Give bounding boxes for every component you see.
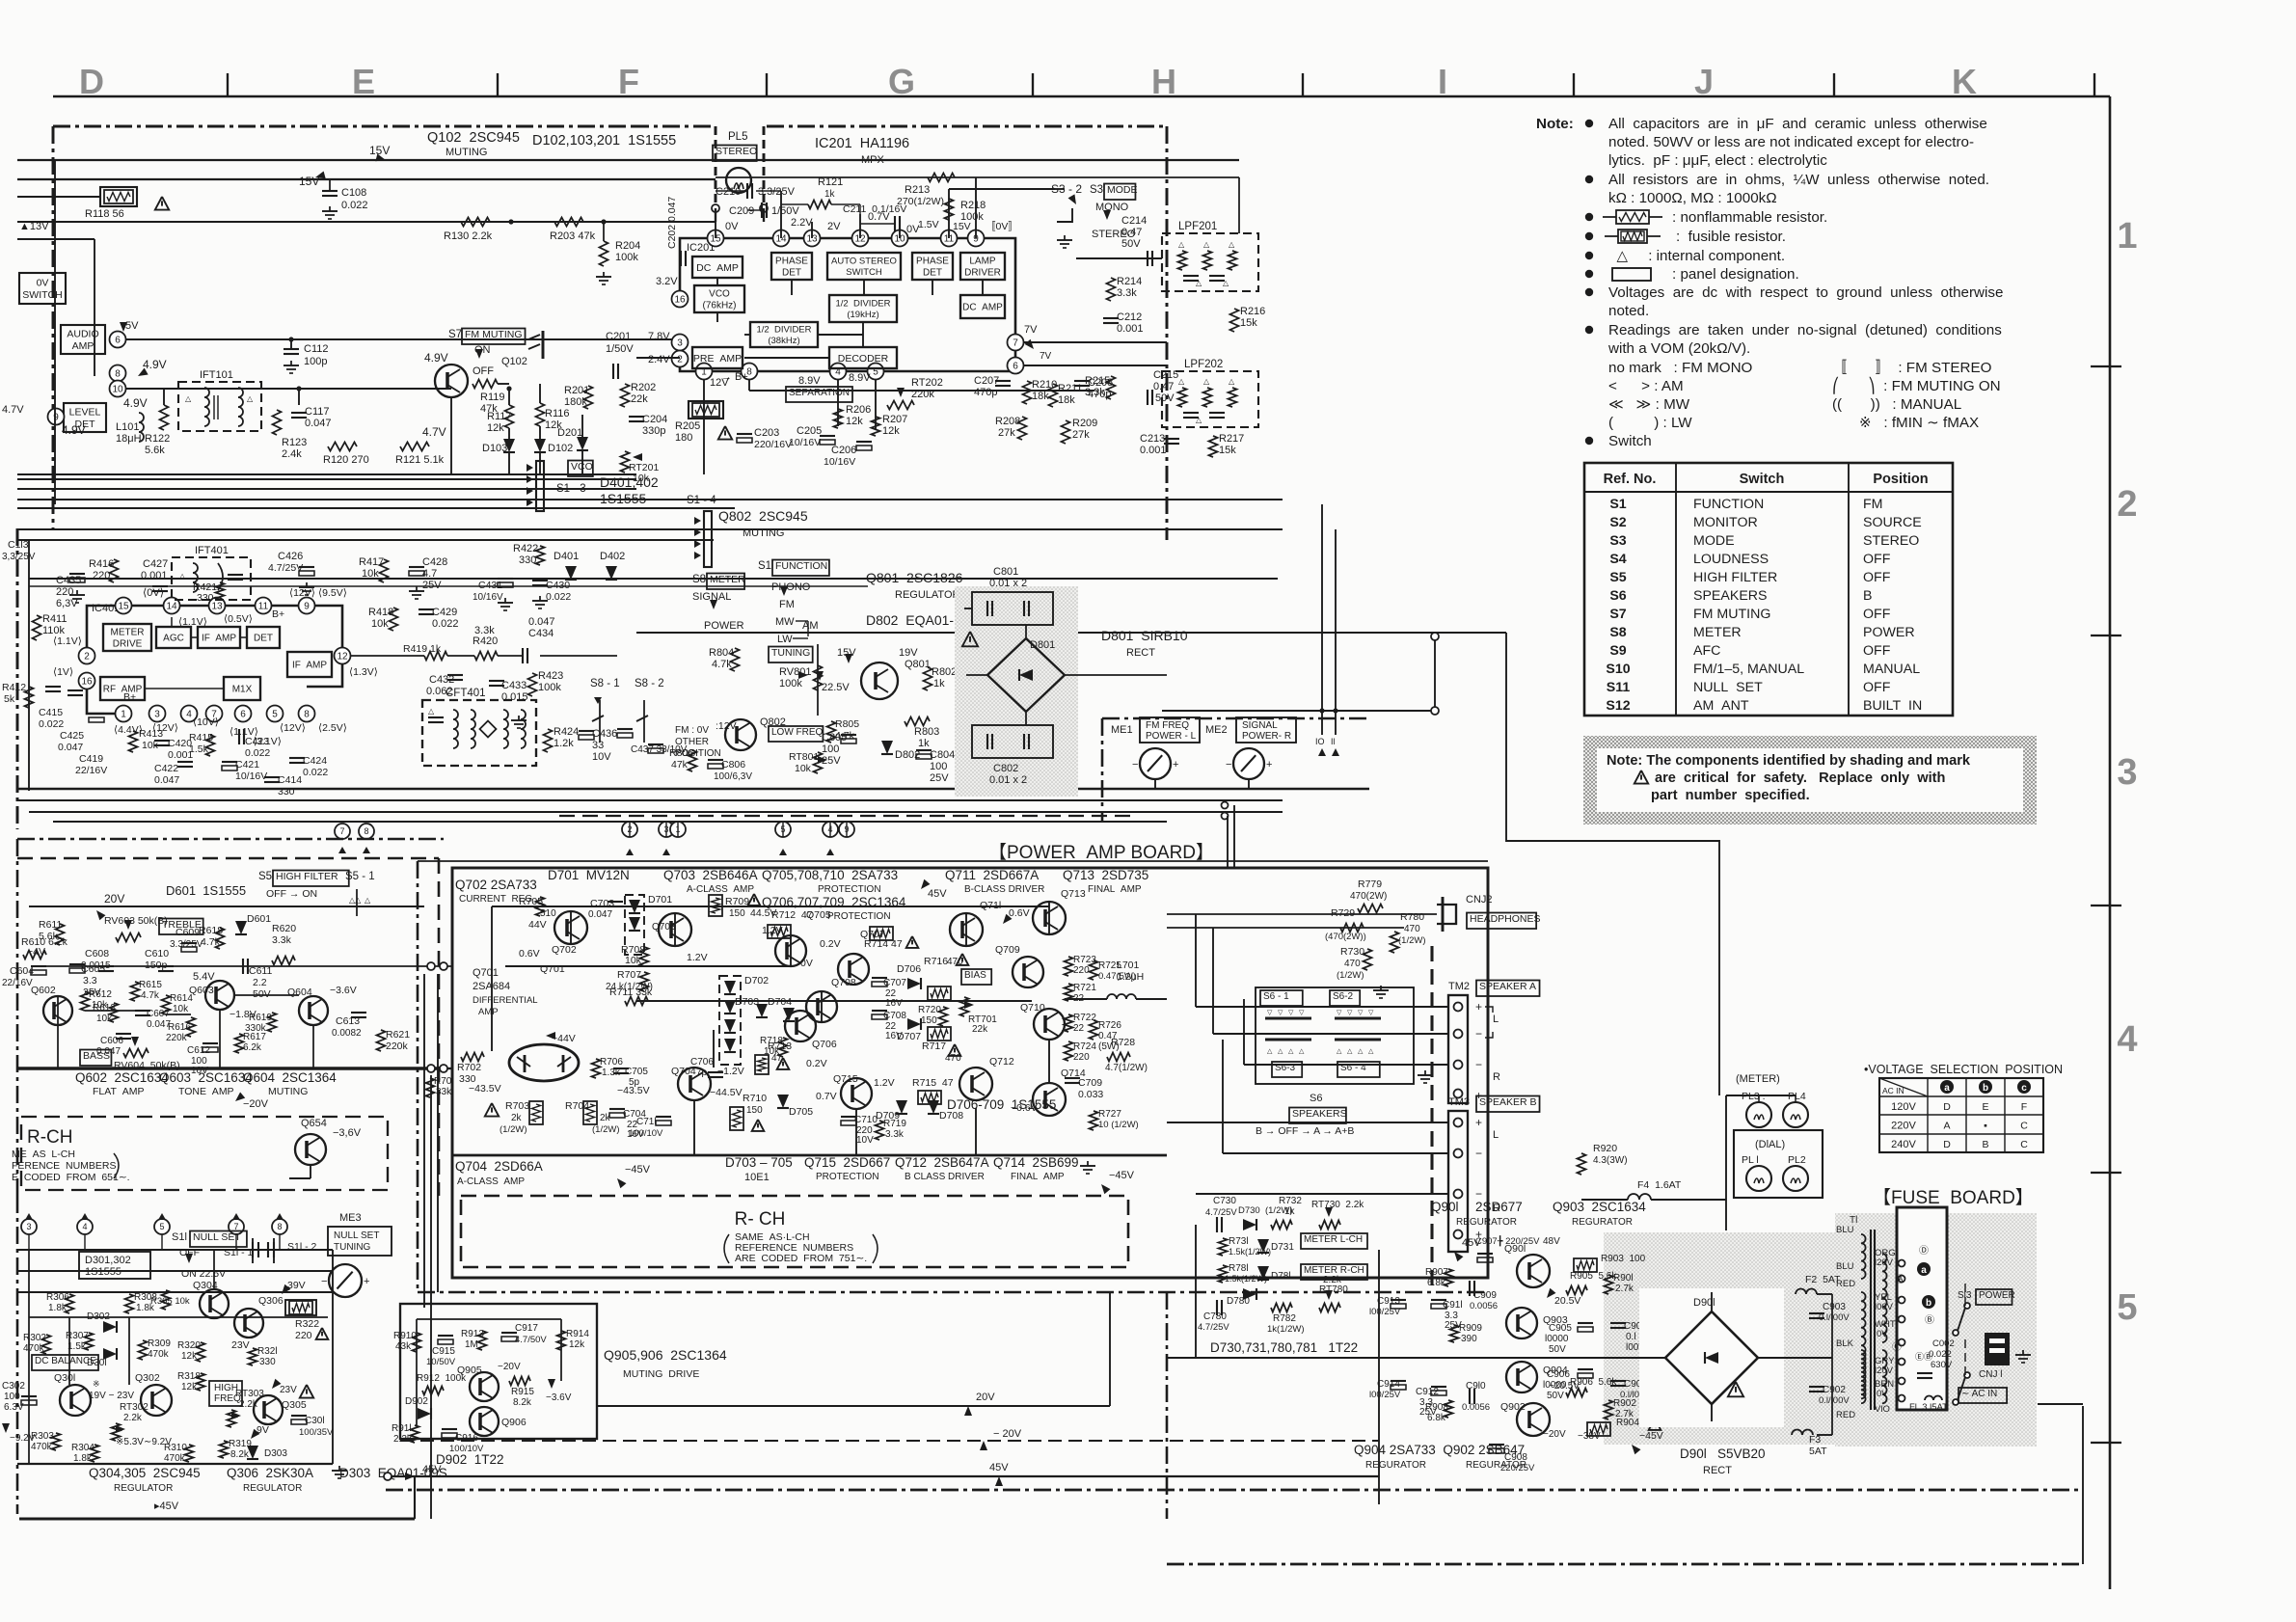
svg-text:▽: ▽ — [1347, 1010, 1353, 1016]
svg-text:D301,302: D301,302 — [85, 1255, 131, 1266]
svg-text:Q30l: Q30l — [54, 1372, 75, 1384]
svg-text:R423: R423 — [538, 670, 563, 682]
muting drive board outline — [400, 1304, 597, 1439]
svg-text:0.047: 0.047 — [154, 774, 179, 786]
svg-text:OFF: OFF — [1863, 570, 1891, 585]
svg-text:OFF → ON: OFF → ON — [266, 888, 317, 900]
svg-text:4.7(1/2W): 4.7(1/2W) — [1105, 1063, 1148, 1073]
svg-text:6: 6 — [240, 710, 246, 720]
svg-text:METER L-CH: METER L-CH — [1304, 1234, 1363, 1245]
svg-text:IF AMP: IF AMP — [292, 661, 327, 671]
svg-text:L: L — [1493, 1014, 1499, 1025]
svg-text:3.2V: 3.2V — [656, 276, 678, 287]
svg-text:12: 12 — [337, 652, 348, 662]
transistor Q704 — [678, 1068, 711, 1100]
block LAMP DRIVER — [960, 253, 1005, 280]
svg-text:R724: R724 — [1073, 1041, 1096, 1052]
svg-text:C606: C606 — [100, 1036, 123, 1046]
resistor R309 470k — [139, 1340, 148, 1360]
svg-text:≪ ≫ : MW: ≪ ≫ : MW — [1608, 396, 1690, 413]
svg-text:2k: 2k — [511, 1113, 523, 1123]
svg-text:9: 9 — [304, 602, 310, 612]
svg-text:Q715: Q715 — [833, 1073, 858, 1085]
svg-text:3: 3 — [677, 338, 683, 349]
svg-text:R711 33k: R711 33k — [609, 987, 653, 998]
tone board dash-dot outline — [17, 838, 444, 841]
svg-text:18k: 18k — [1058, 394, 1075, 406]
resistor R306 1.8k — [66, 1294, 74, 1313]
svg-text:OFF: OFF — [473, 365, 494, 377]
svg-text:Note:: Note: — [1536, 116, 1574, 132]
svg-text:R620: R620 — [272, 923, 296, 934]
block DC AMP — [692, 257, 743, 278]
transistor Q903 — [1506, 1308, 1537, 1338]
capacitor C912 3.3 25V — [1431, 1386, 1446, 1388]
svg-text:D103: D103 — [482, 443, 507, 454]
svg-text:4.7V: 4.7V — [422, 425, 446, 439]
svg-text:R616: R616 — [168, 1022, 191, 1033]
diode D201 — [577, 437, 588, 450]
svg-text:2: 2 — [2117, 484, 2137, 525]
block LEVEL DET — [64, 403, 106, 432]
resistor R417 10k — [380, 559, 389, 582]
svg-text:0.047: 0.047 — [588, 909, 612, 920]
transistor Q654 — [295, 1134, 326, 1165]
svg-text:R907: R907 — [1425, 1267, 1448, 1278]
svg-text:A-CLASS AMP: A-CLASS AMP — [687, 884, 754, 895]
boxed BIAS — [961, 969, 991, 985]
capacitor C711 100/10V — [656, 1116, 671, 1118]
svg-text:∼ AC IN: ∼ AC IN — [1961, 1389, 1997, 1399]
transistor Q306 fet — [234, 1309, 263, 1338]
svg-text:Q704 2SD66A: Q704 2SD66A — [455, 1159, 543, 1174]
svg-text:0.001: 0.001 — [1117, 323, 1144, 335]
svg-text:Ⓒ: Ⓒ — [1892, 1341, 1902, 1353]
svg-text:AGC: AGC — [163, 634, 184, 644]
svg-text:Q712: Q712 — [989, 1056, 1014, 1068]
svg-text:K: K — [1952, 62, 1977, 101]
capacitor C434 0.047 — [522, 648, 524, 663]
svg-text:R215: R215 — [1085, 375, 1110, 387]
svg-text:0.47: 0.47 — [1153, 381, 1174, 392]
svg-text:10k: 10k — [96, 1014, 113, 1024]
svg-text:L701: L701 — [1117, 960, 1140, 971]
tuner board outline dash-dot top — [53, 125, 632, 128]
boxed LOW FREQ — [769, 726, 823, 742]
svg-text:10 (1/2W): 10 (1/2W) — [1098, 1120, 1139, 1130]
transistor Q906 — [470, 1407, 499, 1436]
svg-text:C913: C913 — [1377, 1296, 1400, 1307]
svg-text:12k: 12k — [846, 416, 863, 427]
svg-text:R914: R914 — [566, 1329, 589, 1339]
diode D780 — [1243, 1288, 1256, 1300]
capacitor C913 100/25V — [1391, 1299, 1406, 1301]
svg-text:0.2V: 0.2V — [820, 938, 841, 950]
svg-text:Q701: Q701 — [540, 963, 565, 975]
svg-text:470k: 470k — [164, 1453, 186, 1464]
dash-dot bottom amp area — [418, 1291, 1488, 1294]
capacitor C608 0.0015 — [98, 965, 114, 967]
svg-text:【POWER AMP BOARD】: 【POWER AMP BOARD】 — [988, 842, 1214, 863]
block IF AMP 2 — [287, 652, 332, 677]
bottom network under IC201 — [703, 380, 705, 415]
boxed METER R-CH — [1301, 1264, 1367, 1280]
fusible resistor R716 470 — [928, 987, 951, 1000]
svg-text:AC IN: AC IN — [1882, 1086, 1904, 1095]
S5-1 contacts — [356, 889, 358, 916]
svg-text:6.8k: 6.8k — [1427, 1413, 1446, 1423]
lamp wires — [1758, 1095, 1760, 1102]
svg-text:RT780: RT780 — [1319, 1284, 1348, 1295]
svg-text:REGURATOR: REGURATOR — [1466, 1460, 1526, 1471]
diode D705 — [777, 1095, 789, 1108]
resistor R611 5.6k — [56, 924, 65, 945]
left board edge lines — [16, 1196, 19, 1514]
svg-text:330: 330 — [197, 592, 214, 604]
IC201 left pins — [672, 291, 689, 308]
svg-text:R618: R618 — [199, 925, 223, 936]
svg-text:100k: 100k — [779, 678, 802, 689]
svg-text:0.2V: 0.2V — [806, 1058, 827, 1069]
svg-text:TUNING: TUNING — [771, 647, 810, 659]
capacitor C914 100/25V — [1391, 1380, 1406, 1382]
svg-text:PROTECTION: PROTECTION — [816, 1172, 879, 1182]
resistor R610 6.2k — [23, 951, 46, 960]
svg-text:R‑CH: R‑CH — [27, 1127, 73, 1148]
svg-text:△: △ — [1229, 240, 1235, 249]
svg-text:D303: D303 — [264, 1448, 287, 1459]
pin 10 — [110, 381, 126, 397]
svg-text:C214: C214 — [1121, 215, 1147, 227]
svg-text:150: 150 — [921, 1015, 937, 1026]
svg-text:CNJ2: CNJ2 — [1466, 894, 1493, 906]
capacitor C423 0.022 — [238, 729, 240, 744]
svg-text:R803: R803 — [914, 726, 939, 738]
resistor R728 4.7(1/2W) — [1107, 1053, 1130, 1062]
svg-text:100/10V: 100/10V — [629, 1128, 663, 1139]
svg-text:POWER: POWER — [1863, 625, 1915, 640]
board bottom dash line — [559, 815, 1138, 817]
svg-text:Switch: Switch — [1740, 472, 1785, 487]
svg-text:470: 470 — [1404, 924, 1420, 934]
svg-text:−1.2V: −1.2V — [717, 1066, 744, 1077]
svg-text:Readings are taken under n: Readings are taken under no-signal (detu… — [1608, 322, 2002, 338]
svg-text:2.2: 2.2 — [253, 977, 267, 988]
svg-text:5: 5 — [272, 710, 278, 720]
svg-text:8: 8 — [304, 710, 310, 720]
resistor R617 6.2k — [235, 1034, 244, 1053]
resistor R805 4.7k — [827, 721, 836, 743]
15V rail lower — [17, 178, 716, 180]
svg-text:ON 22.5V: ON 22.5V — [181, 1268, 226, 1280]
svg-text:⟨0V⟩: ⟨0V⟩ — [143, 587, 164, 599]
svg-text:3.3k: 3.3k — [272, 934, 292, 946]
wire 45V right — [1378, 1250, 1380, 1504]
svg-text:AUTO STEREO: AUTO STEREO — [831, 257, 897, 267]
svg-text:PHASE: PHASE — [775, 257, 808, 267]
svg-text:Q709: Q709 — [995, 944, 1020, 956]
svg-text:Q802 2SC945: Q802 2SC945 — [718, 508, 808, 524]
resistor R612 10k — [81, 991, 90, 1011]
svg-text:4.9V: 4.9V — [424, 351, 448, 365]
capacitor C906 10000 50V — [1578, 1368, 1593, 1370]
wire bottom tuner bus — [17, 473, 299, 475]
svg-text:l20V: l20V — [1875, 1257, 1894, 1268]
svg-text:470p: 470p — [974, 387, 997, 398]
svg-text:FM MUTING: FM MUTING — [1693, 607, 1770, 622]
svg-text:▽: ▽ — [1267, 1010, 1273, 1016]
svg-text:△: △ — [1229, 377, 1235, 386]
svg-text:C202 0.047: C202 0.047 — [666, 197, 678, 249]
resistor R727 10(1/2W) — [1090, 1111, 1098, 1130]
capacitor C902 0.1/100V — [1809, 1386, 1824, 1388]
svg-text:R204: R204 — [615, 240, 640, 252]
wire main bus y230 — [17, 221, 716, 223]
wires regulator top — [17, 1249, 333, 1251]
resistor R708 10k — [640, 947, 649, 966]
block AUDIO AMP — [61, 325, 105, 354]
svg-text:4.7: 4.7 — [422, 568, 437, 580]
svg-text:23V: 23V — [280, 1385, 297, 1395]
svg-text:S3: S3 — [1609, 533, 1626, 549]
svg-text:C909: C909 — [1473, 1290, 1497, 1301]
svg-text:Switch: Switch — [1608, 433, 1652, 449]
svg-text:△: △ — [1178, 377, 1185, 386]
vertical left margin wire — [28, 540, 30, 791]
pin 9 — [48, 409, 65, 425]
capacitor C203 220/16V — [737, 433, 752, 435]
svg-text:C905: C905 — [1549, 1323, 1572, 1334]
capacitor C910 0.0056 — [1469, 1389, 1471, 1404]
svg-text:220: 220 — [93, 570, 110, 581]
resistor R321 330 — [249, 1348, 257, 1365]
svg-text:FM: FM — [1863, 497, 1883, 512]
svg-text:FUNCTION: FUNCTION — [775, 560, 827, 572]
svg-text:10V: 10V — [592, 751, 611, 763]
fusible resistor R205 180 — [692, 403, 719, 417]
svg-text:10/16V: 10/16V — [789, 437, 821, 448]
svg-text:10k: 10k — [362, 568, 379, 580]
svg-text:MUTING DRIVE: MUTING DRIVE — [623, 1368, 699, 1380]
connector pins bottom of tuner boards — [622, 822, 637, 837]
resistor R910 43k — [413, 1333, 421, 1352]
svg-text:R209: R209 — [1072, 418, 1097, 429]
svg-text:R32l: R32l — [257, 1346, 278, 1357]
svg-text:R713: R713 — [768, 1041, 792, 1052]
15V rail upper — [17, 159, 1239, 161]
svg-text:D703 – 705: D703 – 705 — [725, 1155, 793, 1170]
svg-text:PL4: PL4 — [1788, 1091, 1806, 1102]
ground cft — [518, 716, 520, 720]
svg-text:12k: 12k — [181, 1351, 198, 1362]
svg-text:▽: ▽ — [1358, 1010, 1364, 1016]
svg-text:4.7/25V: 4.7/25V — [1198, 1322, 1229, 1333]
svg-text:100/6,3V: 100/6,3V — [714, 771, 752, 782]
svg-text:C710: C710 — [854, 1115, 878, 1125]
resistor R718 10k — [779, 1038, 788, 1057]
svg-text:S9: S9 — [1609, 643, 1626, 659]
svg-text:DC BALANCE: DC BALANCE — [35, 1356, 96, 1366]
fuse board shaded region — [1835, 1213, 2037, 1446]
resistor R217 15k — [1209, 436, 1218, 457]
svg-text:Ref. No.: Ref. No. — [1604, 472, 1657, 487]
svg-text:−43.5V: −43.5V — [469, 1083, 501, 1095]
svg-text:▪: ▪ — [1984, 1121, 1987, 1132]
transistor Q301 — [60, 1385, 91, 1416]
svg-text:J: J — [1694, 62, 1714, 101]
svg-text:IF AMP: IF AMP — [202, 634, 236, 644]
transistor Q703 — [659, 913, 691, 946]
svg-text:4.7k: 4.7k — [712, 659, 732, 670]
svg-text:C211 0.1/16V: C211 0.1/16V — [843, 203, 906, 215]
svg-text:0.022: 0.022 — [303, 767, 328, 778]
svg-text:2.4k: 2.4k — [282, 448, 302, 460]
resistor R906 5.6k — [1566, 1389, 1587, 1397]
svg-text:ME1: ME1 — [1111, 724, 1133, 736]
capacitor C420 0.001 — [154, 740, 170, 742]
resistor R911 2.2k — [411, 1425, 419, 1443]
capacitor C604 22/16V — [31, 965, 46, 967]
svg-text:PRE AMP: PRE AMP — [693, 353, 742, 365]
capacitor C909 0.0056 — [1469, 1281, 1471, 1296]
svg-text:Q801: Q801 — [905, 659, 931, 670]
svg-text:PL2: PL2 — [1788, 1154, 1806, 1166]
LPF202 dashed box — [1162, 371, 1258, 427]
transformer core — [1870, 1230, 1872, 1410]
svg-text:Q604 2SC1364: Q604 2SC1364 — [243, 1070, 337, 1085]
svg-text:NULL SET: NULL SET — [1693, 680, 1763, 695]
svg-text:FM/1–5, MANUAL: FM/1–5, MANUAL — [1693, 662, 1804, 677]
tone signal wires — [46, 965, 388, 967]
svg-text:S6-2: S6-2 — [1333, 991, 1354, 1002]
svg-text:Q90l: Q90l — [1431, 1200, 1459, 1214]
svg-text:METER: METER — [710, 574, 745, 585]
capacitor C613 0.0082 — [351, 1012, 366, 1014]
svg-text:S1: S1 — [1609, 497, 1626, 512]
svg-text:1S1555: 1S1555 — [600, 491, 646, 506]
svg-text:6.2k: 6.2k — [243, 1042, 262, 1053]
svg-text:C610: C610 — [145, 948, 169, 960]
svg-text:R782: R782 — [1273, 1313, 1296, 1324]
right border line — [2109, 96, 2112, 1589]
svg-text:+: + — [1173, 759, 1178, 770]
svg-text:1/2 DIVIDER: 1/2 DIVIDER — [835, 299, 890, 310]
svg-text:(DlAL): (DlAL) — [1755, 1139, 1785, 1150]
svg-text:S7: S7 — [1609, 607, 1626, 622]
svg-text:−3.6V: −3.6V — [330, 985, 357, 996]
svg-text:▽: ▽ — [1299, 1010, 1305, 1016]
svg-text:H: H — [1151, 62, 1176, 101]
svg-text:27k: 27k — [998, 427, 1015, 439]
IC401 bottom pins — [116, 706, 132, 722]
svg-text:M1X: M1X — [232, 685, 253, 695]
svg-text:R201: R201 — [564, 385, 589, 396]
svg-text:180k: 180k — [564, 396, 587, 408]
svg-text:0V: 0V — [1877, 1329, 1888, 1339]
svg-text:AMP: AMP — [72, 340, 95, 352]
svg-text:MW: MW — [775, 616, 795, 628]
svg-text:120V: 120V — [1891, 1101, 1916, 1113]
resistor R207 12k — [872, 417, 880, 436]
svg-text:S6: S6 — [1310, 1093, 1322, 1104]
svg-text:−: − — [1132, 759, 1138, 770]
svg-text:△: △ — [365, 896, 371, 905]
boxed TUNING — [769, 647, 813, 663]
power supply board outline dash — [1166, 1292, 1169, 1519]
-20V dashed rail — [400, 1440, 1379, 1442]
svg-text:3: 3 — [154, 710, 160, 720]
resistor R804 4.7k — [731, 648, 740, 671]
svg-text:7.8V: 7.8V — [648, 331, 670, 342]
svg-text:(1/2W): (1/2W) — [592, 1124, 620, 1135]
resistor R416 220 — [110, 559, 119, 582]
svg-text:RED: RED — [1836, 1279, 1855, 1289]
svg-text:C780: C780 — [1203, 1311, 1227, 1322]
svg-text:22k: 22k — [972, 1024, 988, 1035]
capacitor C436 33 10V — [579, 730, 594, 732]
svg-text:−4V: −4V — [27, 946, 45, 958]
svg-text:BLK: BLK — [1836, 1338, 1854, 1349]
regulator board connector pins — [21, 1219, 37, 1234]
diode D730 — [1243, 1219, 1256, 1230]
svg-text:D402: D402 — [600, 551, 625, 562]
svg-text:C212: C212 — [1117, 311, 1142, 323]
svg-text:220: 220 — [1073, 965, 1090, 976]
svg-text:▲13V: ▲13V — [19, 221, 49, 232]
svg-text:S1 - 4: S1 - 4 — [687, 495, 716, 506]
svg-text:DC AMP: DC AMP — [696, 262, 739, 274]
resistor R420 3.3k — [474, 652, 498, 661]
svg-text:〚0V〛: 〚0V〛 — [986, 221, 1018, 232]
transistor Q714 — [1033, 1083, 1066, 1116]
svg-text:10/16V: 10/16V — [824, 456, 855, 468]
svg-text:S8 - 2: S8 - 2 — [635, 678, 664, 689]
capacitor C431 10/16V — [498, 578, 513, 580]
resistor R707 24k(1/2W) — [640, 972, 649, 991]
svg-text:D705: D705 — [789, 1106, 813, 1118]
svg-text:kΩ : 1000Ω, MΩ : 1000kΩ: kΩ : 1000Ω, MΩ : 1000kΩ — [1608, 190, 1777, 206]
svg-text:△: △ — [1223, 279, 1229, 287]
wires above IC201 — [715, 208, 716, 238]
svg-text:C917: C917 — [515, 1323, 538, 1334]
fusible resistor R712 47 — [768, 925, 791, 938]
svg-text:10/16V: 10/16V — [473, 592, 503, 603]
svg-text:D780: D780 — [1227, 1296, 1250, 1307]
svg-text:330p: 330p — [642, 425, 665, 437]
svg-text:Q602 2SC1634: Q602 2SC1634 — [75, 1070, 169, 1085]
regulator inner wires — [28, 1250, 30, 1464]
svg-text:MONITOR: MONITOR — [1693, 515, 1758, 530]
resistor R722 22 — [1065, 1014, 1073, 1032]
capacitor C212 0.001 — [1103, 317, 1119, 319]
svg-text:D902: D902 — [405, 1396, 428, 1407]
svg-text:STEREO: STEREO — [716, 146, 757, 157]
label SEPARATION — [786, 387, 852, 402]
svg-text:0.47: 0.47 — [1121, 227, 1142, 238]
svg-text:0.022: 0.022 — [432, 618, 459, 630]
svg-text:SPEAKER B: SPEAKER B — [1479, 1096, 1537, 1108]
svg-text:R205: R205 — [675, 420, 700, 432]
svg-text:4.7V: 4.7V — [2, 404, 24, 416]
nonflammable resistor symbol — [1603, 216, 1616, 218]
S6 switch bars — [1265, 1017, 1311, 1020]
svg-text:PHONO: PHONO — [771, 581, 811, 593]
resistor R210 18k — [1023, 381, 1032, 404]
svg-text:R722: R722 — [1073, 1013, 1096, 1023]
svg-text:※ : fMIN ∼ fMAX: ※ : fMIN ∼ fMAX — [1859, 415, 1979, 431]
svg-text:Q706: Q706 — [812, 1039, 837, 1050]
fusible resistor R709 150 — [709, 895, 722, 916]
